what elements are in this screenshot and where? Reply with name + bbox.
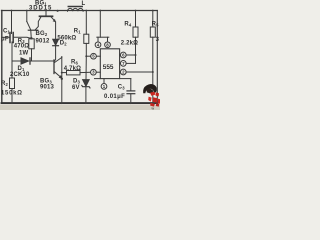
inductor L core bar — [68, 6, 82, 8]
svg-text:R4: R4 — [124, 22, 131, 28]
right border wire — [156, 11, 158, 104]
diode D1 2CK10 — [21, 58, 30, 64]
svg-text:2CK10: 2CK10 — [10, 72, 30, 78]
pin 8 circle — [105, 42, 111, 48]
svg-text:BG2: BG2 — [36, 31, 48, 37]
wire R1 to pin5 node — [85, 43, 87, 56]
svg-text:3DD15: 3DD15 — [29, 6, 52, 12]
transistor BG1 3DD15 base lead — [45, 11, 47, 17]
red stamp logo bottom right — [143, 84, 160, 111]
wire R3 down to D1 cathode node — [31, 49, 33, 61]
svg-text:555: 555 — [103, 64, 114, 71]
transistor BG2 collector to R3 junction — [30, 31, 33, 39]
wire R5 down to ground rail — [152, 37, 154, 103]
resistor R2 box — [10, 78, 15, 89]
svg-text:w: w — [152, 107, 155, 110]
svg-text:2.2kΩ: 2.2kΩ — [121, 41, 138, 47]
transistor BG3 base bar — [53, 60, 55, 74]
wire stub from top rail to C1 node — [11, 11, 13, 34]
wire C3 to ground rail — [130, 94, 132, 103]
wire C1 node down to R2 — [11, 42, 13, 78]
transistor BG2 base bar — [28, 29, 38, 31]
wire C3 top lead — [130, 79, 132, 91]
wire C1 right plate to BG2/R3 junction — [14, 37, 32, 38]
svg-text:470Ω: 470Ω — [14, 43, 29, 49]
transistor BG3 collector diagonal — [54, 57, 61, 62]
pin 7 circle and wire — [120, 61, 126, 67]
svg-text:R5: R5 — [152, 22, 159, 28]
pin numbers — [92, 42, 125, 89]
svg-text:C3: C3 — [118, 85, 125, 91]
left border wire — [1, 11, 3, 104]
resistor R1 box — [84, 34, 89, 43]
wire R6 to 555 pin 3 — [80, 71, 91, 73]
wire R2 to ground rail — [11, 89, 13, 104]
paper background — [0, 0, 160, 110]
svg-text:4.7kΩ: 4.7kΩ — [64, 66, 81, 72]
wire R5 from top rail — [152, 11, 154, 28]
svg-text:1W: 1W — [19, 51, 28, 57]
resistor R3 box — [29, 39, 34, 49]
wire R4 to pins 6,7 — [135, 37, 137, 63]
pin 3 circle — [91, 69, 97, 75]
wire from left border to C1 — [2, 36, 10, 38]
bottom ground rail — [2, 102, 158, 104]
wire D2 cathode down to BG3 — [54, 46, 55, 61]
transistor BG1 3DD15 bar — [40, 15, 53, 17]
wire BG3 node to R6 — [62, 72, 67, 74]
resistor R6 box — [67, 71, 81, 75]
svg-text:L: L — [82, 1, 86, 7]
svg-text:3: 3 — [156, 37, 160, 43]
black crescent part — [143, 84, 157, 94]
svg-text:R6: R6 — [71, 60, 78, 66]
wire node down to zener D3 — [85, 56, 87, 79]
transistor BG3 emitter diagonal with arrow — [54, 72, 61, 78]
svg-text:0.01μF: 0.01μF — [104, 94, 125, 100]
555 timer IC box — [100, 49, 119, 79]
transistor BG3 collector/emitter line — [61, 57, 63, 104]
svg-text:D2: D2 — [60, 41, 67, 47]
wire stub top rail to BG2 emitter — [26, 11, 28, 22]
pin 5 circle — [91, 53, 97, 59]
capacitor C3 plates — [127, 90, 135, 92]
svg-text:μF: μF — [1, 37, 9, 43]
svg-text:R2: R2 — [1, 81, 8, 87]
transistor BG2 emitter diagonal — [27, 22, 31, 31]
svg-text:9012: 9012 — [36, 38, 50, 44]
pin 6 circle and wire — [120, 52, 126, 58]
resistor R4 box — [133, 27, 138, 37]
pin 2 circle and wire — [120, 69, 126, 75]
wire 3DD15 left leg down to BG2 — [35, 17, 41, 30]
svg-text:R1: R1 — [74, 28, 81, 34]
capacitor C1 plates — [9, 33, 11, 43]
wire from R2 line to D1 anode — [12, 60, 21, 62]
svg-text:D3: D3 — [73, 78, 80, 84]
svg-text:6V: 6V — [72, 85, 80, 91]
svg-text:150kΩ: 150kΩ — [1, 91, 23, 97]
diode D2 — [53, 39, 59, 46]
wire BG1 emitter down to D2 — [55, 22, 57, 39]
wire node to 555 pin 5 — [86, 55, 90, 57]
bottom margin strip — [0, 104, 160, 110]
transistor BG1 emitter diagonal with arrow — [51, 17, 55, 22]
wire R4 from top rail — [135, 11, 137, 28]
svg-text:D1: D1 — [18, 66, 25, 72]
wire D1 cathode to BG3 base — [30, 60, 54, 62]
wire R1 from top rail — [85, 11, 87, 35]
junction dots — [11, 10, 154, 105]
resistor R5 box — [150, 27, 155, 37]
pin 4 circle — [95, 42, 101, 48]
wire 555 bottom edge to C3 — [120, 78, 131, 80]
svg-text:9013: 9013 — [40, 85, 54, 91]
labels — [1, 1, 160, 100]
inductor L windings — [68, 8, 84, 11]
red stamp strokes — [150, 92, 155, 96]
wire D3 to ground rail — [85, 87, 87, 103]
zener diode D3 — [82, 80, 90, 88]
top supply rail — [2, 10, 158, 12]
pin 1 circle and stub — [103, 79, 105, 84]
svg-text:C1: C1 — [3, 29, 10, 35]
wire top rail to pins 4 and 8 — [99, 11, 101, 38]
